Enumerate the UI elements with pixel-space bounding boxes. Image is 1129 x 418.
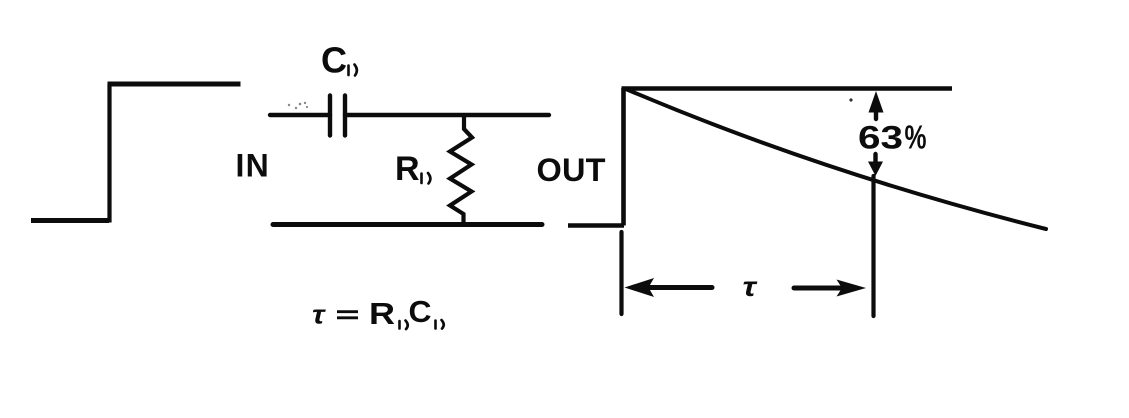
- svg-text:OUT: OUT: [537, 152, 606, 188]
- wire: capacitor to output node: [345, 113, 549, 117]
- label C_D value/designator: [321, 40, 357, 81]
- wire: input lead to capacitor: [270, 113, 330, 117]
- wire: input step rising edge: [107, 84, 111, 223]
- dimension extension line at t=tau: [871, 176, 875, 316]
- capacitor C_D left plate: [328, 96, 332, 136]
- svg-text:IN: IN: [236, 148, 270, 184]
- svg-text:63: 63: [858, 120, 903, 156]
- svg-text:τ: τ: [743, 271, 758, 302]
- svg-text:R: R: [369, 297, 395, 331]
- arrow: 63% lower (pointing down to curve): [868, 154, 883, 176]
- capacitor C_D right plate: [343, 96, 347, 136]
- resistor R_D: [450, 117, 472, 224]
- wire: output baseline segment: [568, 223, 624, 228]
- wire: output rising edge: [621, 88, 626, 226]
- label R_D designator: [395, 150, 430, 188]
- svg-text:R: R: [395, 150, 420, 188]
- arrow: 63% upper (pointing up to top line): [869, 91, 884, 119]
- arrow: tau dimension right: [794, 280, 866, 297]
- dimension extension line at t=0: [619, 232, 623, 314]
- wire: input step bottom segment: [31, 218, 109, 223]
- wire: bottom rail: [273, 222, 542, 227]
- svg-text:τ: τ: [312, 302, 326, 330]
- curve: exponential decay of output: [627, 90, 1046, 230]
- svg-text:C: C: [321, 40, 347, 81]
- arrow: tau dimension left: [625, 278, 713, 297]
- wire: input step top segment: [108, 82, 241, 87]
- svg-text:%: %: [905, 119, 927, 156]
- svg-text:C: C: [409, 295, 432, 329]
- formula: tau = R_D C_D: [312, 295, 444, 331]
- wire: output top reference line: [622, 86, 953, 91]
